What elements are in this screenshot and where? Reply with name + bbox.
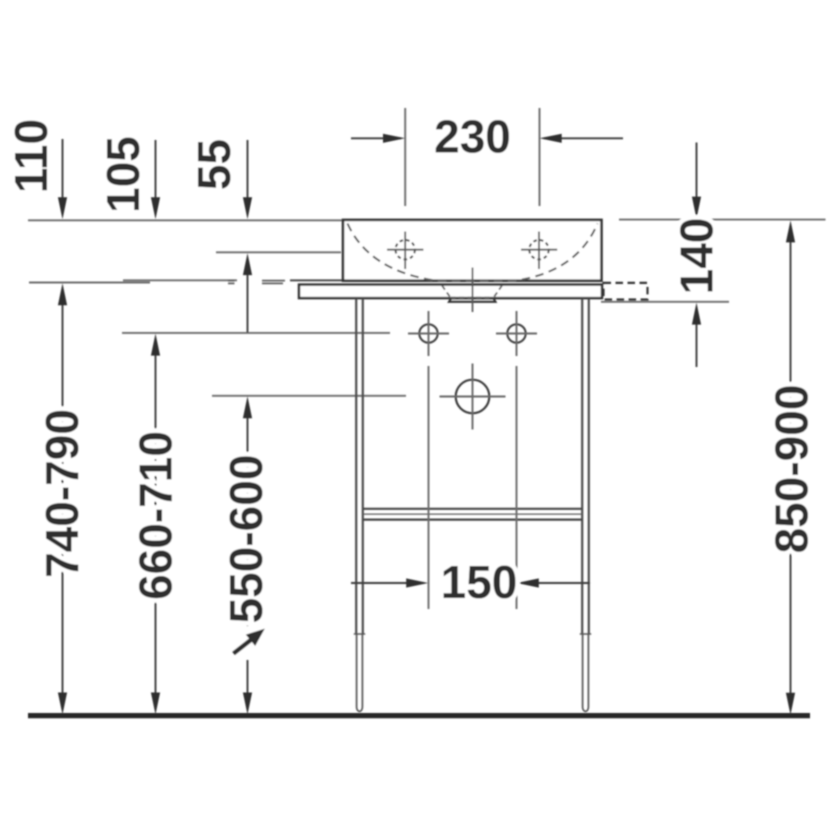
tap hole right crosshair [521,232,557,270]
drain recess hidden lines [442,286,502,298]
dimension 230 extension lines [405,108,539,206]
svg-text:660-710: 660-710 [130,431,182,600]
tap hole left crosshair [387,232,423,270]
floor line [28,713,810,718]
dimension 110 top arrow [62,139,64,215]
svg-text:110: 110 [5,119,57,193]
wall fixing hole right crosshair [496,311,537,356]
left leg adjustable foot [357,634,363,711]
tap hole right dashed circle [529,240,548,259]
dimension 230 left arrow [351,137,401,139]
console plate [299,285,602,299]
dimension 550-600 line [247,401,249,707]
basin inner bowl hidden curve [348,224,598,281]
wall fixing hole left crosshair [408,311,449,356]
reference line tap-hole level (55) [216,251,341,253]
towel rail [363,508,582,510]
dimension 850-900 line [790,225,792,708]
washbasin outline [343,220,602,281]
reference line basin-top level right [619,219,826,221]
reference line basin-top level left [28,219,342,221]
reference line drain level (550-600) [212,395,406,397]
right leg foot joint tick [580,633,591,635]
extension line from right hole down [516,366,518,609]
drain hole crosshair [440,364,506,430]
tap hole left dashed circle [396,240,415,259]
reference line fixing-hole level (660-710) [122,332,390,334]
plate extension dashed box [604,283,648,300]
svg-text:850-900: 850-900 [766,385,818,554]
dimension 105 top arrow [155,140,157,215]
dimension 140 bottom arrow [696,307,698,367]
drain flange below plate [449,298,496,301]
svg-text:55: 55 [188,139,240,190]
extension line from left hole down [428,366,430,609]
wall fixing hole right [507,324,525,342]
svg-text:550-600: 550-600 [220,455,272,624]
hidden dash basin bottom left [228,280,285,282]
hidden dash plate top left [228,282,283,284]
wall fixing hole left [419,324,437,342]
reference line 105 [123,279,237,281]
adjustability diagonal arrow [234,639,253,654]
dimension 230 right arrow [544,137,623,139]
svg-text:230: 230 [434,111,511,163]
reference line 110 [29,282,150,284]
svg-text:740-790: 740-790 [36,409,88,578]
dimension 660-710 line [155,338,157,707]
dimension 140 top arrow [696,143,698,215]
right leg [582,298,589,634]
svg-text:150: 150 [441,556,518,608]
dimension 150 arrows [351,582,590,584]
dimension 55 top arrow [247,140,249,215]
drain centerline [472,268,474,313]
drain hole [456,380,490,414]
dimension 740-790 line [62,288,64,707]
left leg foot joint tick [354,633,365,635]
dimension 55 bottom arrow [247,258,249,333]
left leg [356,298,363,634]
reference line 140 bottom [601,301,729,303]
basin bottom edge extension [290,279,343,281]
svg-text:105: 105 [97,136,149,213]
svg-text:140: 140 [670,218,722,295]
right leg adjustable foot [583,634,589,711]
